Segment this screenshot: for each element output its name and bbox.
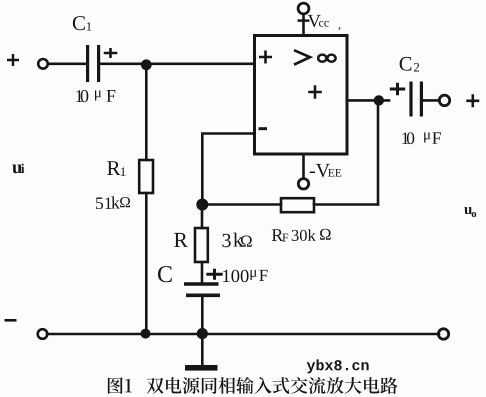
terminal: input bottom circle bbox=[38, 329, 48, 339]
label -VEE bbox=[310, 164, 330, 177]
wire: bottom rail bbox=[47, 333, 439, 336]
capacitor C2 plates bbox=[411, 82, 421, 117]
label 100 uF bbox=[223, 270, 248, 282]
label Vcc polarity tick bbox=[298, 19, 310, 21]
label 51 kOhm bbox=[96, 197, 111, 209]
junction node inverting/RF/R bbox=[196, 199, 208, 211]
resistor RF body bbox=[281, 198, 314, 212]
wire: ground stem bbox=[201, 334, 204, 365]
wire: C2 to output terminal bbox=[423, 99, 439, 102]
junction node R1/bottom rail bbox=[141, 329, 151, 339]
resistor R1 body bbox=[139, 160, 153, 193]
wire: op-amp output bbox=[347, 99, 389, 102]
label ui bbox=[12, 165, 22, 174]
wire: -VEE stem bbox=[302, 154, 305, 178]
wire: C1 to op-amp non-inverting input bbox=[100, 62, 255, 65]
label C bbox=[158, 266, 172, 282]
label C1 bbox=[73, 16, 85, 30]
op-amp gain symbol greater-than bbox=[294, 50, 310, 64]
op-amp + input sign bbox=[259, 51, 272, 64]
wire: inverting input L bbox=[202, 134, 254, 205]
label 10uF under C1 bbox=[76, 90, 82, 102]
terminal: -VEE circle bbox=[298, 179, 308, 189]
label Vcc bbox=[308, 15, 321, 27]
capacitor C1 polarity + bbox=[104, 48, 118, 58]
wire: feedback horizontal RF row bbox=[202, 203, 378, 206]
label R1 bbox=[107, 161, 120, 175]
label RF 30k Ohm bbox=[272, 229, 283, 241]
capacitor C1 plates bbox=[88, 45, 99, 82]
wire: Vcc stem bbox=[302, 14, 305, 36]
label uo bbox=[464, 207, 472, 214]
junction node C/bottom rail bbox=[197, 328, 208, 339]
capacitor C polarity + bbox=[206, 269, 222, 280]
sign + at output bbox=[466, 94, 479, 107]
junction node at C1/R1 bbox=[141, 59, 152, 70]
junction node output/feedback bbox=[374, 95, 384, 105]
terminal: output circle bbox=[439, 95, 449, 105]
ground bbox=[185, 365, 218, 371]
op-amp - input sign bbox=[259, 127, 268, 130]
sign + at input top bbox=[7, 54, 19, 66]
capacitor C2 polarity + bbox=[390, 83, 405, 96]
wire: input top from terminal to C1 bbox=[48, 62, 86, 65]
label C2 bbox=[400, 57, 412, 71]
capacitor C plates bbox=[184, 282, 219, 286]
sign - at input bottom bbox=[5, 319, 17, 322]
terminal: input top circle bbox=[38, 59, 48, 69]
wire: R1 branch vertical bbox=[145, 64, 148, 334]
comma speck near Vcc bbox=[338, 27, 340, 30]
op-amp U1 body bbox=[255, 36, 348, 155]
label 10uF under C2 bbox=[402, 132, 408, 144]
wire: feedback vertical bbox=[377, 100, 380, 204]
resistor R body bbox=[195, 228, 208, 262]
terminal: Vcc circle bbox=[298, 3, 309, 14]
label 3 kOhm bbox=[222, 234, 230, 247]
terminal: output bottom circle bbox=[438, 329, 448, 339]
wire: R C series branch bbox=[201, 205, 204, 335]
label R bbox=[174, 233, 188, 247]
watermark ybx8.cn bbox=[307, 359, 369, 373]
op-amp output + sign bbox=[308, 85, 322, 99]
caption 图1 双电源同相输入式交流放大电路 bbox=[108, 377, 398, 394]
op-amp gain symbol infinity bbox=[318, 55, 326, 62]
